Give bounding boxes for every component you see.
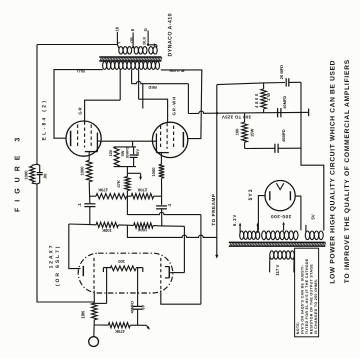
T2 laminated core [229,241,326,243]
wire HV center tap [283,225,285,231]
T2 HV winding 300-300 [262,231,266,240]
T2 6.3V winding [240,231,244,239]
wire to coupling cap left [89,196,91,203]
wire 270K right end [154,195,162,197]
svg-text:12AX7: 12AX7 [49,244,55,269]
input jack J1 [89,337,99,347]
ground bar [308,109,310,117]
node BLK tap [147,44,149,46]
12AX7 section B internals [136,258,169,306]
wire to junction right [161,178,163,196]
wire cap to V1 plate node [89,207,91,225]
svg-text:15W: 15W [250,128,255,137]
wire 4800 bottom [263,109,265,113]
wire 5Y3 left plate lead [258,196,265,231]
wire cap to V2 plate node [161,209,163,226]
svg-text:1000: 1000 [80,166,85,176]
T1 secondary left lead [117,45,119,49]
arrow TO PREAMP [215,255,218,259]
svg-text:GR-WH: GR-WH [171,96,176,116]
wire BLU plate lead to V1 [54,70,103,139]
svg-text:1000: 1000 [23,170,28,180]
wire B+ tee drop [126,225,128,238]
wire to B+ tee [118,224,127,226]
svg-text:40MFD: 40MFD [282,96,287,109]
wire 117V right lead [293,256,295,272]
wire GR-WH to V2 screen [139,99,168,122]
wire stub from B+ run [142,84,144,109]
svg-text:30MFD: 30MFD [126,146,130,158]
svg-text:4800: 4800 [254,92,259,108]
svg-text:EL-84 (2): EL-84 (2) [41,99,47,141]
wire 5V left stub [305,225,307,233]
wire 270K left end [90,195,96,197]
12AX7 section A internals [83,258,110,304]
svg-text:NOTE:: NOTE: [296,321,300,334]
resistor 4800 1W [261,89,267,109]
wire G tap stub [147,31,149,45]
svg-text:BLU-WH: BLU-WH [169,68,184,72]
svg-text:47K: 47K [116,180,121,188]
T2 5V winding [305,231,309,240]
wire splitter to V2b grid with hop [127,212,200,214]
svg-text:6.3V: 6.3V [232,214,237,226]
svg-text:50V: 50V [135,149,140,156]
wire V3a grid exit [93,291,95,303]
wire 6.3V right lead [257,225,259,233]
EL-84 V2 (right output tube) [152,122,188,164]
svg-text:TO IMPROVE THE QUALITY OF COM: TO IMPROVE THE QUALITY OF COMMERCIAL AMP… [344,59,351,283]
wire 16-ohm tap feedback [37,44,117,46]
capacitor 20MFD [285,78,287,86]
wire 470K left [94,324,108,326]
wire 117V left lead [269,256,271,272]
arrow 6.3V left [239,223,242,226]
svg-text:TO PREAMP: TO PREAMP [211,194,216,226]
capacitor .1 left coupling [84,203,95,205]
svg-text:120: 120 [108,150,113,157]
svg-text:(OR 6SL7): (OR 6SL7) [55,245,61,286]
wire screen tap GR vertical [119,70,121,101]
svg-text:1W: 1W [266,91,271,100]
12AX7 V3 twin triode envelope [78,253,173,293]
ground stub 470K [146,325,148,328]
arrow HV center tap [282,222,285,225]
T1 secondary winding section 2 [134,47,138,54]
wire 47K bottom [126,191,128,197]
wire cathode to bias network [132,141,134,147]
ground arrow [139,177,142,180]
resistor 10K input [92,303,98,320]
T1 laminated core [99,56,161,58]
cathode bias network R 120 ohm 5W with C 30MFD 50V [114,147,138,167]
svg-text:TUTED FOR EL-84'S IF THE CATHO: TUTED FOR EL-84'S IF THE CATHODE [305,258,309,334]
svg-text:5W: 5W [120,150,125,156]
wire V1 plate node row [69,223,96,226]
output transformer T1 DYNACO A-410 [99,45,162,70]
wire node C [217,83,285,85]
arrow 6.3V right [256,223,259,226]
wire TO PREAMP feed [216,85,218,256]
svg-text:40MFD: 40MFD [281,129,286,142]
T1 secondary winding section 1 [119,47,123,54]
svg-text:100K: 100K [102,228,112,233]
resistor 100K left plate load [96,222,118,227]
svg-text:5Y3: 5Y3 [248,188,254,200]
resistor 47K [125,177,130,191]
svg-text:100K: 100K [137,228,147,233]
svg-text:5V: 5V [311,214,316,219]
svg-text:16: 16 [114,26,119,31]
resistor 1000 V1 grid stopper [86,160,92,182]
svg-text:300-300: 300-300 [271,214,292,219]
node 8 tap [132,46,134,48]
wire V2b grid feed down [200,215,202,305]
resistor 270K left [96,194,127,199]
svg-text:300 TO 325V: 300 TO 325V [222,115,251,120]
wire 470K right to ground [130,324,146,326]
svg-text:G: G [143,28,148,31]
wire 4800 top [263,83,265,89]
resistor 100K right plate load [134,223,154,228]
resistor 470K grid return [108,323,130,328]
arrow speaker common [154,43,157,46]
svg-text:470K: 470K [115,329,125,334]
wire to V2b grid entry [161,293,201,304]
wire V1 plate node to 12AX7a plate [69,224,81,269]
svg-text:BLK: BLK [142,37,146,45]
wire to coupling cap right [161,196,163,205]
note box [295,248,319,337]
resistor 1000 V2 grid stopper [159,164,165,178]
rectifier tube 5Y3 [265,181,295,211]
svg-text:.1: .1 [167,203,172,207]
wire B+ tee to 100K right [127,224,133,226]
wire 47K top [126,173,128,176]
svg-text:20 MFD: 20 MFD [279,65,284,79]
wire screen tap GR-WH vertical [138,70,140,100]
wire 100 ohm top [244,113,246,123]
svg-text:BLU: BLU [77,69,85,73]
wire cap to rail [289,81,301,83]
wire 100 ohm bottom [244,142,246,148]
svg-text:1000: 1000 [151,167,156,177]
wire plate node to grid drop [153,225,184,228]
svg-text:OR: OR [130,37,134,43]
wire to chassis ground [127,172,140,174]
resistor 100 15W [242,122,248,142]
wire speaker common [148,44,154,46]
EL-84 V1 (left output tube) [66,121,101,160]
svg-text:RED: RED [148,85,156,90]
wire 6.3V left lead [239,225,241,233]
wire to input jack [93,320,96,337]
node B+ junction [216,112,218,114]
wire bias network to ground [126,167,128,174]
wire B+ to 12AX7 with hops [127,235,216,237]
wire B+ down to node B [187,84,189,114]
svg-text:100: 100 [117,259,125,264]
svg-text:GR: GR [78,106,83,114]
wire cathode bus [101,140,152,142]
wire node B with hop over plate lead [199,111,301,113]
svg-text:DYNACO A-410: DYNACO A-410 [168,13,174,56]
wire node B ground stub [301,111,309,113]
T2 117V primary winding [270,251,274,259]
wire 5Y3 right plate lead [295,196,301,230]
T1 secondary winding section 3 [149,47,153,54]
svg-text:10K: 10K [80,310,85,319]
wire node A to rail [278,147,301,149]
T1 secondary right lead [156,45,158,47]
wire BLU-WH plate lead to V2 [161,70,202,139]
resistor 100 between cathodes [110,266,136,271]
wire to junction [88,182,90,196]
wire node A [245,147,275,149]
svg-text:.06: .06 [43,173,48,179]
resistor 270K right [131,194,153,199]
wire 16 tap stub [116,32,118,45]
svg-text:Y: Y [117,41,121,44]
svg-text:RESISTOR OF THE OUTPUT STAGE: RESISTOR OF THE OUTPUT STAGE [310,264,314,335]
capacitor 40MFD 6V cathode bypass [133,305,143,307]
capacitor 40MFD node A [274,144,276,153]
wire B+ run with hop [132,81,189,83]
wire splitter tap down [126,196,128,215]
svg-text:117 V: 117 V [275,264,280,275]
svg-text:100: 100 [234,128,239,136]
svg-text:40MFD: 40MFD [130,301,134,314]
wire 8 tap stub [132,32,134,47]
feedback network R 1000 parallel C .06 [30,164,43,184]
svg-text:.1: .1 [77,203,82,207]
capacitor .1 right coupling [156,205,167,207]
svg-text:270K: 270K [137,188,147,193]
wire feedback to V3a grid node [37,184,94,302]
wire GR to V1 screen [85,100,121,121]
wire feedback rail [36,45,38,165]
ground stub [140,173,142,177]
wire 270K junction [127,195,132,197]
wire node B left segment [188,112,199,114]
wire into V2a plate [170,272,184,274]
svg-text:FIGURE 3: FIGURE 3 [14,132,21,212]
wire cap to 470K [137,309,139,325]
svg-text:IS CHANGED TO 250 OHMS.: IS CHANGED TO 250 OHMS. [314,279,318,335]
wire V3b grid exit [160,291,162,293]
power transformer T2 [229,231,326,259]
capacitor 40MFD node B [277,108,279,117]
wire grid node [93,302,95,303]
wire V2a plate feed [183,226,185,272]
svg-text:6V6'S OR 6AQ5'S CAN BE SUBSTI-: 6V6'S OR 6AQ5'S CAN BE SUBSTI- [301,264,305,334]
svg-text:LOW POWER HIGH QUALITY CIRCUIT: LOW POWER HIGH QUALITY CIRCUIT WHICH CAN… [330,60,337,284]
svg-text:270K: 270K [98,188,108,193]
wire rail to 5V winding [301,82,324,230]
T1 primary winding [103,61,107,69]
svg-text:6V: 6V [141,304,145,309]
wire RED B+ center tap [131,70,133,84]
ground arrow 470K [147,326,150,330]
